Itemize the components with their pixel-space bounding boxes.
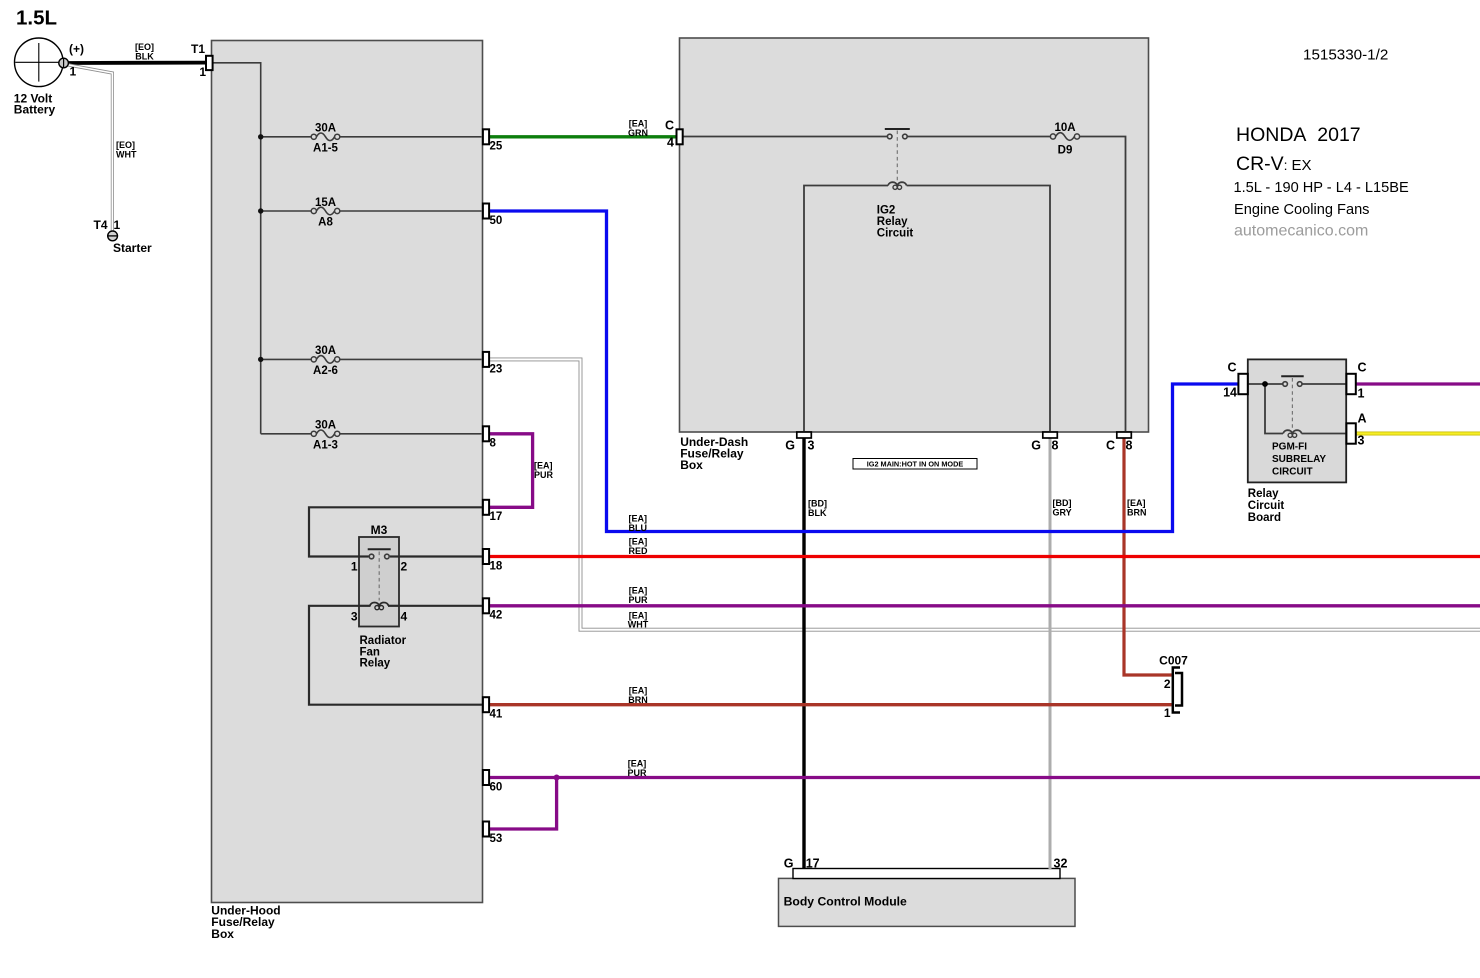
- svg-text:RED: RED: [628, 546, 648, 556]
- svg-text:53: 53: [490, 833, 503, 845]
- svg-text:1: 1: [199, 65, 206, 79]
- svg-text:C: C: [1106, 439, 1115, 453]
- svg-text:32: 32: [1054, 857, 1068, 871]
- svg-text:1: 1: [70, 65, 77, 79]
- svg-text:CR-V: EX: CR-V: EX: [1236, 153, 1311, 175]
- svg-text:BLK: BLK: [808, 508, 827, 518]
- svg-text:BLU: BLU: [629, 523, 648, 533]
- svg-text:60: 60: [490, 781, 503, 793]
- svg-text:1: 1: [351, 560, 358, 574]
- svg-text:G: G: [1031, 439, 1041, 453]
- svg-text:Box: Box: [680, 458, 703, 472]
- svg-text:23: 23: [490, 363, 503, 375]
- svg-text:30A: 30A: [315, 345, 336, 357]
- svg-text:10A: 10A: [1054, 122, 1075, 134]
- svg-text:1: 1: [114, 218, 121, 232]
- svg-text:Relay: Relay: [877, 216, 908, 228]
- svg-text:C: C: [1358, 361, 1367, 375]
- svg-text:M3: M3: [371, 523, 388, 537]
- svg-text:A2-6: A2-6: [313, 365, 338, 377]
- svg-text:1: 1: [1358, 387, 1365, 401]
- svg-text:8: 8: [1052, 439, 1059, 453]
- svg-text:A1-5: A1-5: [313, 142, 339, 154]
- svg-text:41: 41: [490, 709, 503, 721]
- svg-text:C: C: [1227, 361, 1236, 375]
- svg-text:Starter: Starter: [113, 241, 152, 255]
- svg-text:(+): (+): [69, 42, 84, 56]
- svg-text:Relay: Relay: [360, 658, 391, 670]
- svg-text:PUR: PUR: [534, 470, 554, 480]
- svg-text:1.5L: 1.5L: [16, 7, 57, 30]
- svg-text:8: 8: [1126, 439, 1133, 453]
- svg-text:BRN: BRN: [1127, 507, 1147, 517]
- svg-text:BRN: BRN: [628, 695, 648, 705]
- svg-text:18: 18: [490, 560, 503, 572]
- svg-text:A1-3: A1-3: [313, 439, 338, 451]
- svg-text:CIRCUIT: CIRCUIT: [1272, 467, 1313, 478]
- svg-text:14: 14: [1223, 386, 1237, 400]
- svg-text:IG2 MAIN:HOT IN ON MODE: IG2 MAIN:HOT IN ON MODE: [867, 460, 964, 469]
- svg-text:SUBRELAY: SUBRELAY: [1272, 454, 1326, 465]
- svg-text:Circuit: Circuit: [1248, 500, 1285, 512]
- svg-text:Radiator: Radiator: [360, 635, 407, 647]
- svg-text:BLK: BLK: [135, 51, 154, 61]
- svg-text:Fan: Fan: [360, 646, 380, 658]
- svg-text:A8: A8: [318, 217, 333, 229]
- svg-text:Box: Box: [211, 927, 234, 941]
- svg-text:17: 17: [806, 857, 820, 871]
- svg-text:3: 3: [1358, 434, 1365, 448]
- svg-text:Relay: Relay: [1248, 488, 1279, 500]
- svg-text:HONDA 2017: HONDA 2017: [1236, 124, 1361, 146]
- svg-text:Board: Board: [1248, 512, 1281, 524]
- svg-text:IG2: IG2: [877, 205, 896, 217]
- svg-text:D9: D9: [1058, 145, 1073, 157]
- svg-text:30A: 30A: [315, 123, 336, 135]
- svg-text:G: G: [785, 439, 795, 453]
- svg-text:25: 25: [490, 141, 503, 153]
- svg-text:1.5L - 190 HP - L4 - L15BE: 1.5L - 190 HP - L4 - L15BE: [1234, 180, 1409, 196]
- svg-text:PUR: PUR: [628, 595, 648, 605]
- svg-text:Circuit: Circuit: [877, 228, 914, 240]
- svg-text:Battery: Battery: [14, 103, 56, 117]
- svg-text:1: 1: [1164, 706, 1171, 720]
- svg-text:1515330-1/2: 1515330-1/2: [1303, 47, 1388, 64]
- svg-text:WHT: WHT: [116, 150, 137, 160]
- svg-text:GRY: GRY: [1053, 507, 1072, 517]
- svg-text:automecanico.com: automecanico.com: [1234, 223, 1368, 240]
- svg-text:A: A: [1358, 412, 1367, 426]
- svg-text:C007: C007: [1159, 654, 1188, 668]
- svg-text:PGM-FI: PGM-FI: [1272, 441, 1307, 452]
- svg-text:8: 8: [490, 438, 497, 450]
- svg-text:T4: T4: [93, 218, 107, 232]
- svg-text:2: 2: [1164, 677, 1171, 691]
- svg-text:3: 3: [808, 439, 815, 453]
- svg-text:4: 4: [667, 136, 674, 150]
- svg-text:3: 3: [351, 609, 358, 623]
- svg-text:30A: 30A: [315, 420, 336, 432]
- svg-text:2: 2: [401, 560, 408, 574]
- svg-text:Body Control Module: Body Control Module: [784, 894, 907, 908]
- svg-text:GRN: GRN: [628, 128, 648, 138]
- svg-text:15A: 15A: [315, 197, 336, 209]
- svg-text:C: C: [665, 119, 674, 133]
- svg-text:50: 50: [490, 215, 503, 227]
- svg-text:42: 42: [490, 610, 503, 622]
- svg-text:G: G: [784, 857, 794, 871]
- svg-text:WHT: WHT: [628, 620, 649, 630]
- svg-text:PUR: PUR: [627, 768, 647, 778]
- svg-text:17: 17: [490, 511, 503, 523]
- svg-text:T1: T1: [191, 42, 205, 56]
- svg-text:Engine Cooling Fans: Engine Cooling Fans: [1234, 202, 1369, 218]
- svg-text:4: 4: [401, 609, 408, 623]
